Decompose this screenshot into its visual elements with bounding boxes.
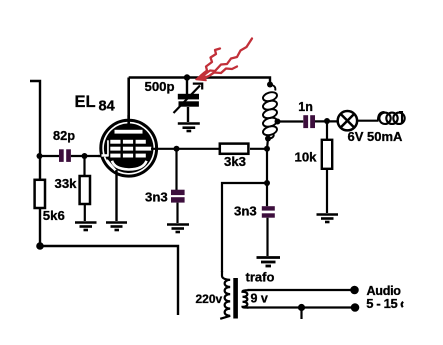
node: stub junction bbox=[298, 304, 305, 311]
resistor 3k3 bbox=[220, 144, 249, 154]
ground: below 500p bbox=[178, 124, 200, 132]
node: screen/3n3 junction bbox=[174, 146, 180, 152]
wire: 3n3-2 to ground bbox=[266, 218, 268, 256]
svg-text:1n: 1n bbox=[298, 100, 313, 114]
svg-text:5 - 15: 5 - 15 bbox=[366, 296, 397, 311]
svg-text:3n3: 3n3 bbox=[234, 204, 257, 219]
ground: below 3n3 screen bbox=[167, 225, 189, 233]
capacitor 1n bbox=[303, 115, 315, 128]
ground: tube cathode bbox=[106, 223, 127, 231]
cathode left support bbox=[107, 160, 116, 171]
secondary winding 9v bbox=[243, 290, 249, 307]
lamp 6V 50mA bbox=[338, 111, 357, 130]
grid dashes row3 bbox=[110, 154, 120, 158]
grid dashes row2 bbox=[110, 147, 120, 151]
transformer trafo bbox=[220, 271, 248, 319]
wire: grid wire from rail to 82p bbox=[39, 155, 59, 157]
wire: 33k lead bbox=[83, 156, 85, 176]
node: trafo branch junction bbox=[264, 180, 270, 186]
svg-text:33k: 33k bbox=[55, 176, 78, 191]
spark antenna (red) bbox=[196, 39, 252, 81]
wire: 3k3 to coil junction bbox=[250, 148, 267, 150]
wire: coil tap to 1n bbox=[278, 120, 304, 122]
wire: top-left stub and left rail bbox=[30, 81, 40, 246]
resistor 10k bbox=[322, 140, 332, 169]
anode plate bbox=[115, 130, 143, 134]
node: rail/grid junction bbox=[37, 153, 43, 159]
wire: top wire anode to coil bbox=[129, 78, 270, 87]
svg-text:3k3: 3k3 bbox=[224, 154, 246, 169]
ground: below 10k bbox=[317, 215, 339, 223]
svg-text:6V 50mA: 6V 50mA bbox=[348, 129, 404, 144]
node: coil bottom bbox=[265, 136, 271, 142]
wire: cathode lead to ground bbox=[115, 170, 117, 221]
primary winding 220v bbox=[220, 271, 230, 319]
grid left rail bbox=[107, 140, 109, 156]
wire: 33k to ground bbox=[84, 204, 86, 221]
node: coil tap bbox=[275, 119, 281, 125]
capacitor 82p bbox=[59, 149, 71, 162]
svg-text:9 v: 9 v bbox=[251, 292, 268, 306]
svg-text:82p: 82p bbox=[53, 128, 75, 143]
wire: 3n3 to ground bbox=[176, 203, 178, 223]
wire: coil bottom to junction bbox=[267, 139, 268, 149]
capacitor 500p variable bbox=[174, 84, 203, 113]
resistor 33k bbox=[80, 176, 90, 204]
wire: tube screen to 3k3 bbox=[151, 148, 220, 150]
wire: 3n3 screen cap lead bbox=[175, 149, 177, 190]
svg-text:EL: EL bbox=[75, 93, 96, 111]
wire: 82p to tube grid bbox=[71, 155, 103, 157]
node: audio top terminal bbox=[350, 286, 359, 295]
node: 1n/10k junction bbox=[324, 118, 330, 124]
wire: 10k lead bbox=[326, 121, 328, 140]
cathode arc bbox=[112, 161, 147, 170]
node: grid/33k junction bbox=[82, 153, 88, 159]
node: coil top bbox=[267, 82, 273, 88]
wire: lamp to antenna coil bbox=[358, 120, 379, 122]
ground: below 3n3 bottom bbox=[257, 258, 281, 267]
node: 3k3/coil junction bbox=[264, 146, 270, 152]
svg-text:84: 84 bbox=[99, 99, 115, 115]
node: audio bottom terminal bbox=[351, 303, 360, 312]
wire: 500p top lead bbox=[186, 78, 188, 95]
wire: 500p to ground bbox=[187, 107, 189, 122]
wire: 1n to lamp bbox=[315, 120, 337, 122]
wire: stub below audio bbox=[300, 308, 302, 320]
anode lead crossing ring bbox=[127, 115, 130, 130]
node: 500p junction bbox=[184, 74, 190, 80]
wire: audio top bbox=[248, 289, 355, 291]
label partial ohm glyph bbox=[402, 302, 404, 307]
svg-text:5k6: 5k6 bbox=[43, 208, 65, 223]
ground: below 33k bbox=[75, 223, 97, 231]
wire: bottom rail bbox=[40, 246, 178, 315]
tube EL84 bbox=[98, 115, 157, 176]
capacitor 3n3 (screen) bbox=[171, 190, 185, 203]
wire: anode lead bbox=[127, 78, 130, 131]
svg-text:220v: 220v bbox=[196, 292, 223, 306]
coil L1 bbox=[262, 85, 278, 139]
grid lead crossing ring bbox=[98, 155, 105, 157]
transformer core bbox=[233, 278, 238, 319]
svg-text:500p: 500p bbox=[145, 79, 175, 94]
svg-text:3n3: 3n3 bbox=[145, 190, 168, 205]
node: rail bottom junction bbox=[36, 242, 44, 250]
grid dashes row1 bbox=[102, 140, 152, 158]
svg-text:trafo: trafo bbox=[246, 270, 275, 285]
antenna coil bbox=[378, 112, 405, 124]
wire: junction down to 3n3-2 bbox=[266, 149, 268, 206]
svg-text:10k: 10k bbox=[295, 150, 318, 165]
wire: audio bottom bbox=[247, 306, 355, 308]
resistor 5k6 bbox=[35, 180, 45, 208]
wire: branch to trafo primary bbox=[222, 183, 267, 272]
wire: 10k to ground bbox=[326, 169, 328, 213]
capacitor 3n3 (bottom) bbox=[262, 206, 275, 218]
